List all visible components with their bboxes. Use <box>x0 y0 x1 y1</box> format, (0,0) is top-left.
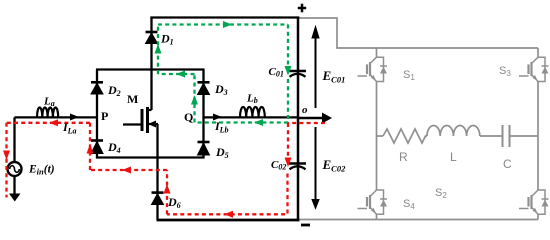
svg-text:EC02: EC02 <box>322 157 347 174</box>
green arrow down (into C01) <box>285 66 292 76</box>
wire green along Lb <box>195 121 289 123</box>
capacitor C02 <box>289 164 306 170</box>
IGBT S4 <box>358 190 388 214</box>
IGBT S2 <box>519 190 549 214</box>
svg-text:S4: S4 <box>403 198 415 211</box>
svg-text:D5: D5 <box>215 145 229 160</box>
wire red source down <box>5 123 7 198</box>
inductor Lb <box>240 107 265 117</box>
svg-text:D6: D6 <box>167 195 181 210</box>
label plus <box>298 4 306 13</box>
wire green up D3 <box>193 74 195 123</box>
red arrow down (into C02) <box>285 158 292 168</box>
wire red from node o <box>288 122 325 124</box>
svg-text:D1: D1 <box>160 32 174 47</box>
wire red bridge bottom <box>90 169 167 171</box>
svg-text:D2: D2 <box>107 83 121 98</box>
diode D3 <box>198 82 210 94</box>
green arrow up (D3 path) <box>191 95 198 105</box>
inductor La <box>37 108 58 118</box>
green arrow left (bridge top) <box>176 71 185 78</box>
svg-text:o: o <box>302 104 308 116</box>
wire left phase leg <box>376 48 378 58</box>
wire red up D6 <box>166 170 168 214</box>
wire DC bus <box>297 17 300 222</box>
current arrow I_La <box>70 114 79 121</box>
measurement arrow E_C02 <box>312 127 319 209</box>
svg-text:S1: S1 <box>403 69 415 82</box>
diode D1 <box>146 32 158 44</box>
green arrow up (D1 path) <box>155 44 162 54</box>
wire input from source <box>15 116 98 118</box>
wire gray DC+ top link <box>298 18 538 48</box>
svg-text:EC01: EC01 <box>322 68 346 85</box>
source bottom terminal arrow <box>9 194 21 202</box>
svg-text:C: C <box>503 157 512 171</box>
svg-text:Q: Q <box>184 110 193 124</box>
red arrow down (source) <box>3 151 10 161</box>
wire right bridge column (Q) <box>202 70 204 159</box>
svg-text:ILb: ILb <box>214 119 229 135</box>
wire green bus down to C01 <box>287 25 289 67</box>
wire center column (D1 / MOSFET drain) <box>150 18 152 111</box>
wire green top rail segment <box>158 23 288 25</box>
diode D4 <box>91 141 103 154</box>
svg-text:S3: S3 <box>499 65 511 78</box>
wire left bridge column (P) <box>96 70 98 159</box>
capacitor C01 <box>289 71 306 77</box>
wire Lb output <box>204 116 299 118</box>
resistor R <box>383 129 427 143</box>
svg-text:M: M <box>127 92 138 106</box>
wire green bridge top <box>158 73 195 75</box>
AC source Ein <box>8 162 22 176</box>
inductor L <box>427 125 480 136</box>
wire red down to C02 <box>287 123 289 160</box>
label minus <box>301 224 310 227</box>
svg-text:C01: C01 <box>269 66 284 79</box>
IGBT S1 <box>358 57 388 81</box>
wire right phase leg <box>537 48 539 58</box>
wire red below C02 <box>167 174 288 215</box>
red arrow left (bridge bottom) <box>122 167 131 174</box>
svg-text:P: P <box>101 109 108 123</box>
node o output arrow <box>298 113 331 122</box>
wire load rail right <box>510 135 538 137</box>
svg-text:D4: D4 <box>107 140 121 155</box>
red arrow up (D4 path) <box>87 144 94 154</box>
wire green below C01 <box>287 79 289 123</box>
svg-text:La: La <box>43 96 55 109</box>
wire top rail <box>150 16 299 18</box>
wire green up D1 <box>157 25 159 75</box>
wire MOSFET source column / D6 column <box>156 124 158 220</box>
IGBT S3 <box>519 57 549 81</box>
diode D6 <box>152 193 164 205</box>
wire red up D4 <box>89 123 91 170</box>
svg-text:Ein(t): Ein(t) <box>28 164 55 177</box>
svg-text:C02: C02 <box>271 159 286 172</box>
green arrow right (top rail) <box>223 21 232 28</box>
svg-text:R: R <box>399 150 408 164</box>
MOSFET M <box>123 107 158 133</box>
wire bridge top <box>96 68 205 70</box>
wire bridge bottom <box>96 156 205 158</box>
wire source column bottom <box>13 176 15 195</box>
diode D5 <box>198 142 210 155</box>
svg-text:D3: D3 <box>214 82 228 97</box>
measurement arrow E_C01 <box>312 27 319 109</box>
wire load rail middle <box>480 135 502 137</box>
wire load rail left <box>377 135 384 137</box>
wire source column top <box>13 117 15 162</box>
wire bottom rail <box>157 219 300 222</box>
red arrow up (D6 path) <box>164 184 171 194</box>
svg-text:L: L <box>450 150 457 164</box>
diode D2 <box>91 82 103 94</box>
green arrow left (Lb path) <box>254 119 263 126</box>
svg-text:Lb: Lb <box>246 93 258 106</box>
current arrow I_Lb <box>213 114 222 121</box>
red arrow left (bottom rail) <box>224 211 233 218</box>
wire red back to source <box>7 122 91 124</box>
capacitor C <box>503 125 510 147</box>
svg-text:S2: S2 <box>435 187 447 200</box>
red arrow left (input wire) <box>49 119 58 126</box>
wire gray DC- bottom rail <box>298 219 538 221</box>
